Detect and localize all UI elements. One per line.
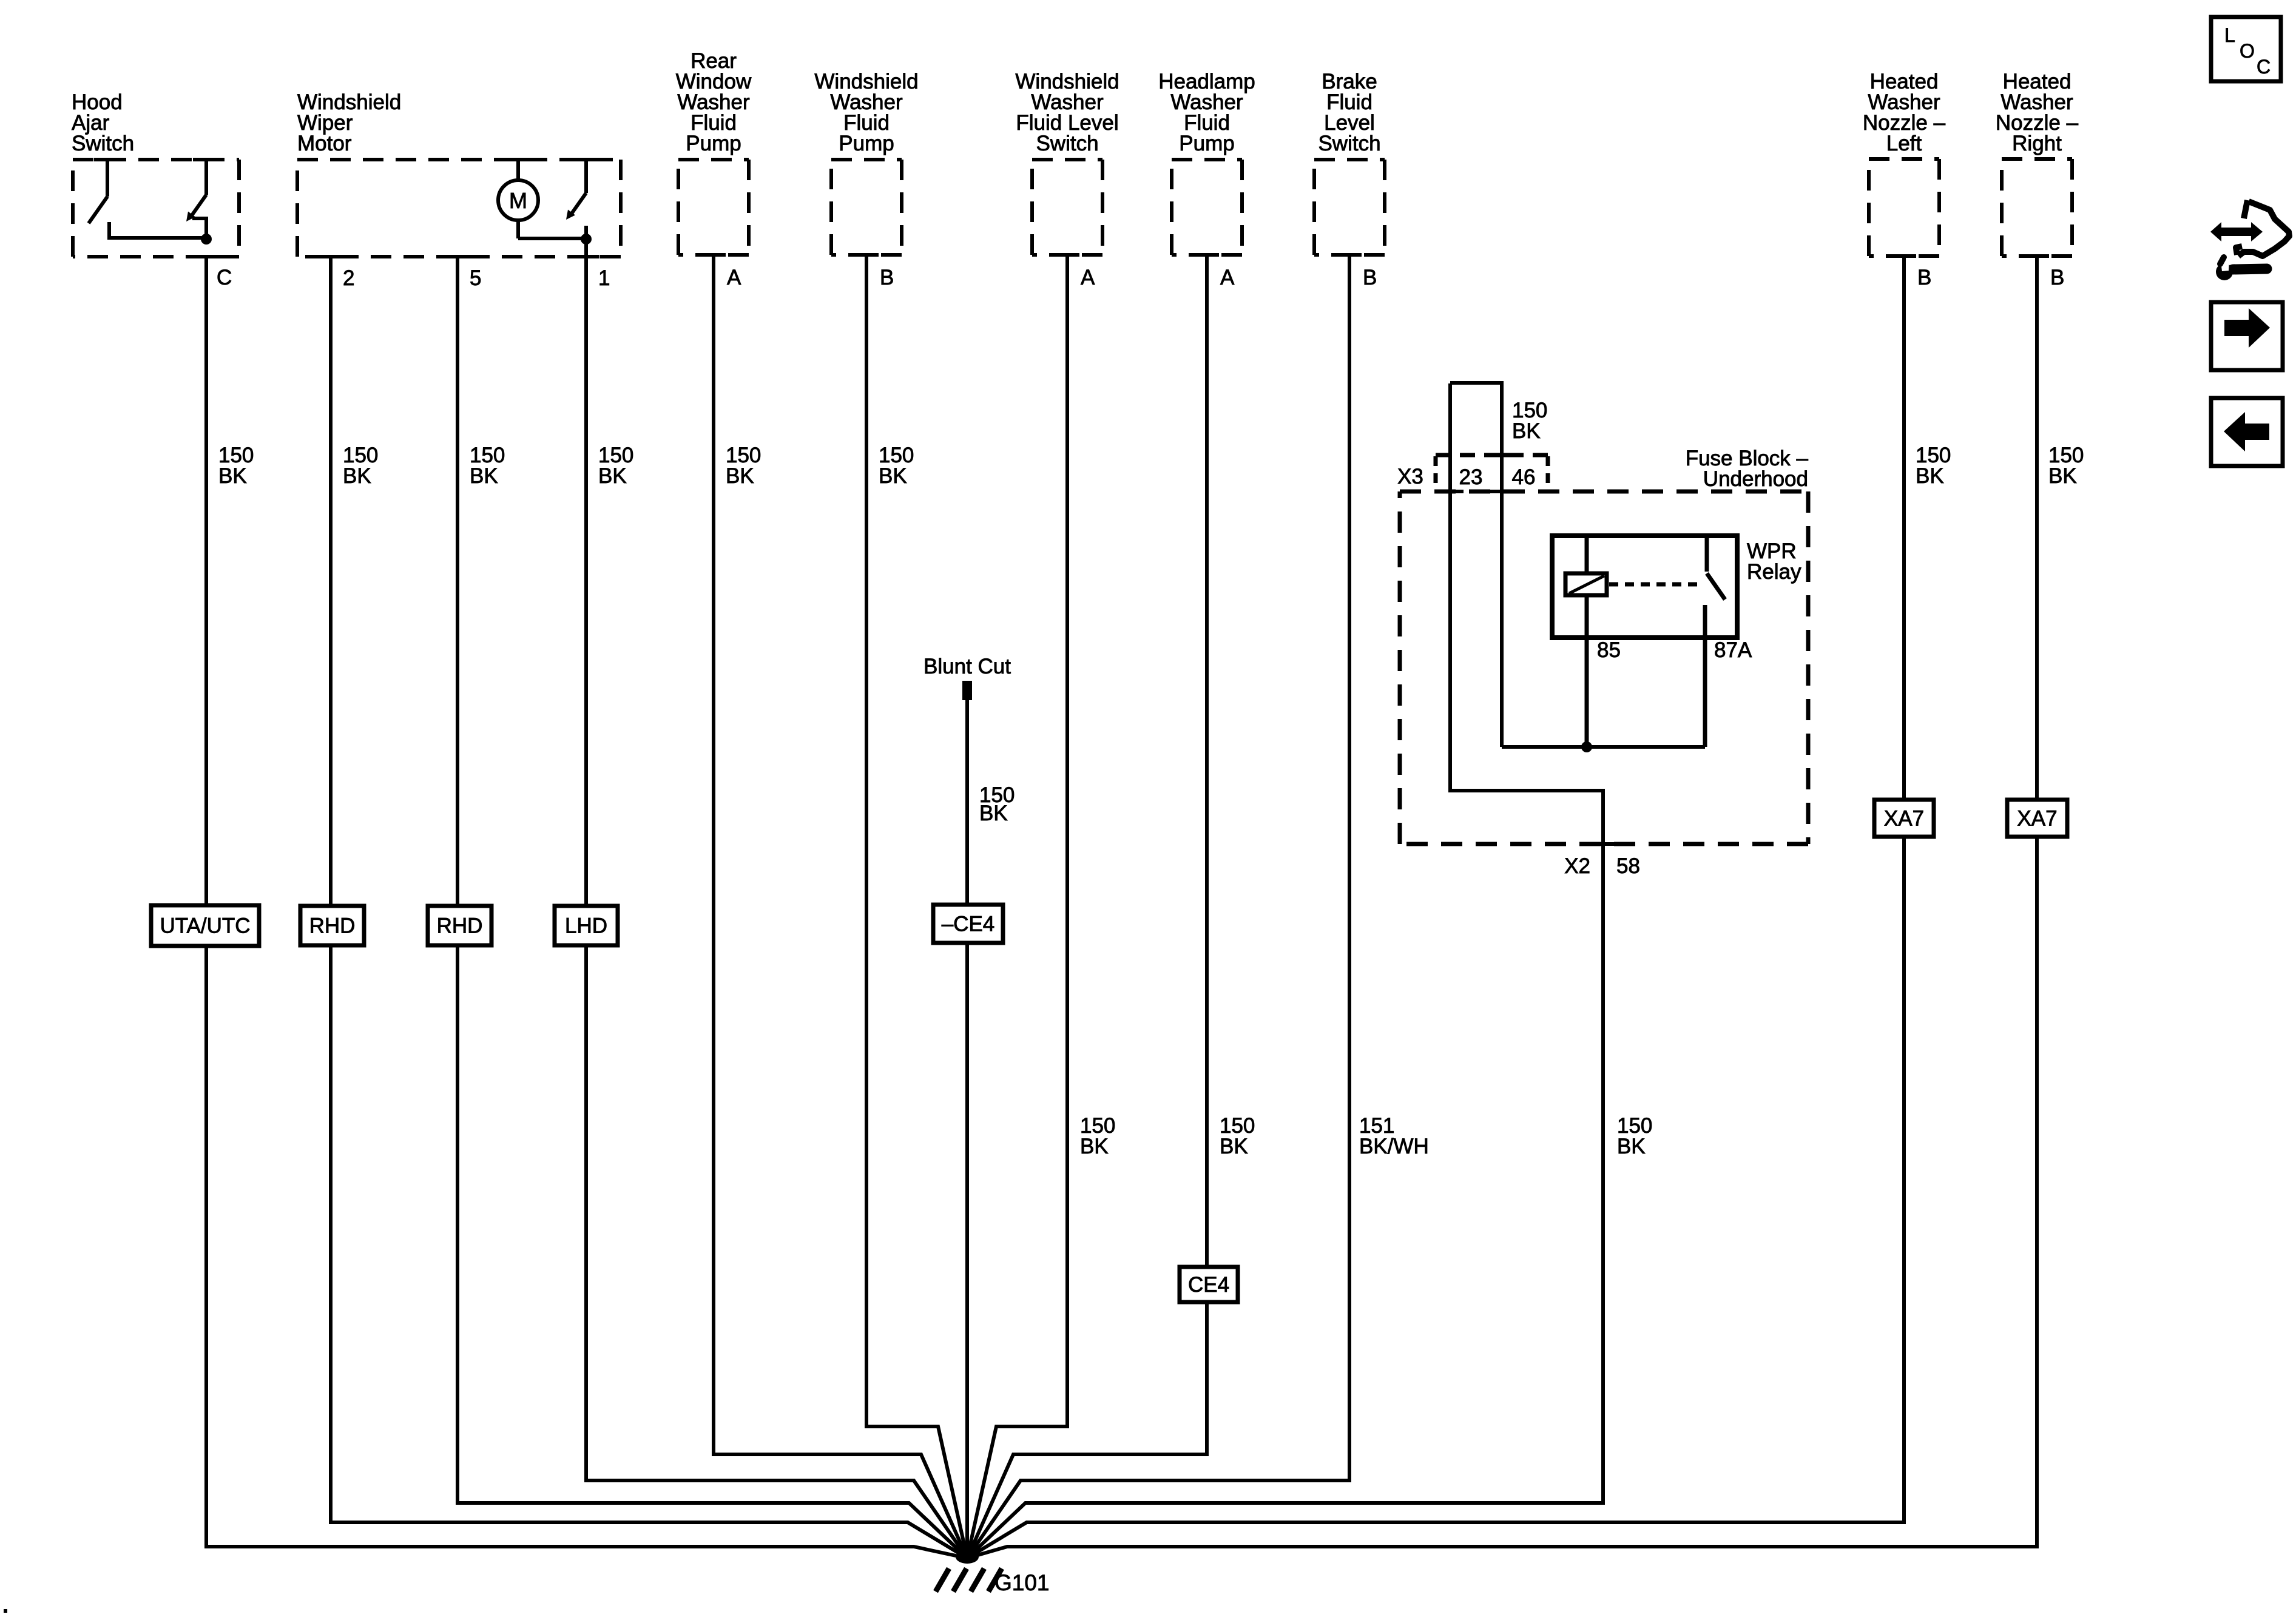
wire hood ajar switch pin C to ground G101: [206, 257, 967, 1558]
wire heated washer nozzle left pin B to ground G101: [967, 256, 1904, 1558]
svg-text:XA7: XA7: [1884, 807, 1924, 831]
svg-text:Switch: Switch: [1036, 132, 1098, 155]
wire wiper motor pin 2 to ground G101: [331, 257, 967, 1558]
svg-text:RHD: RHD: [437, 914, 483, 938]
pump P2 Windshield Washer Fluid Pump box: [831, 158, 902, 161]
svg-text:BK: BK: [979, 802, 1008, 825]
wire blunt cut to ground G101: [965, 698, 969, 1558]
svg-text:Left: Left: [1886, 132, 1922, 155]
svg-text:1: 1: [598, 266, 610, 290]
svg-text:BK: BK: [879, 464, 907, 488]
switch S1 contact 2 with arrowhead: [204, 160, 208, 195]
fuse block underhood dashed box: [1400, 490, 1808, 494]
connector code UTA/UTC: [151, 905, 259, 946]
heater HTR Heated Washer Nozzle Left box: [1869, 157, 1939, 161]
icon glove with double arrow and wrench (see service info): [2210, 222, 2263, 241]
relay K1 switch contact 87A: [1705, 536, 1709, 572]
svg-text:XA7: XA7: [2017, 807, 2057, 831]
blunt cut terminal: [962, 681, 972, 700]
svg-text:BK: BK: [2048, 464, 2077, 488]
junction node relay pin 85: [1581, 741, 1592, 752]
connector code XA7 left: [1874, 800, 1934, 837]
svg-text:46: 46: [1512, 465, 1536, 489]
svg-text:58: 58: [1616, 854, 1640, 878]
svg-text:BK: BK: [470, 464, 498, 488]
wire wiper motor pin 1 to ground G101: [586, 240, 967, 1558]
svg-text:Pump: Pump: [686, 132, 741, 155]
svg-text:85: 85: [1597, 638, 1621, 662]
svg-text:Pump: Pump: [839, 132, 894, 155]
ground G101 symbol: [956, 1550, 979, 1564]
page artifact dot bottom-left: [4, 1609, 7, 1613]
junction node wiper motor: [581, 234, 592, 245]
svg-text:BK: BK: [726, 464, 754, 488]
svg-text:Switch: Switch: [1318, 132, 1380, 155]
svg-text:BK: BK: [1617, 1135, 1646, 1158]
wire relay coil pin 85: [1585, 595, 1589, 747]
wire windshield washer pump pin B to ground G101: [866, 255, 967, 1558]
switch S1 contact 1: [106, 160, 109, 197]
relay K1 coil: [1585, 536, 1589, 573]
svg-text:UTA/UTC: UTA/UTC: [160, 914, 250, 938]
switch internal wiper motor park switch with arrowhead: [584, 160, 588, 193]
wire internal wiper motor: [518, 237, 586, 240]
svg-text:Motor: Motor: [297, 132, 352, 155]
connector code RHD (pin 5 wire): [428, 906, 491, 945]
svg-text:BK: BK: [1080, 1135, 1109, 1158]
svg-text:Underhood: Underhood: [1703, 467, 1808, 491]
relay K1 dashed actuation link: [1609, 582, 1699, 587]
svg-text:BK/WH: BK/WH: [1359, 1135, 1429, 1158]
icon arrow previous page: [2211, 398, 2283, 466]
wire internal hood ajar switch: [107, 236, 206, 240]
wire windshield washer fluid level switch pin A to ground G101: [967, 255, 1067, 1558]
svg-text:–CE4: –CE4: [942, 913, 995, 936]
switch S3 Brake Fluid Level Switch box: [1314, 158, 1385, 161]
pump P1 Rear Window Washer Fluid Pump box: [678, 158, 749, 161]
wire relay 85/87A to X2 58: [1502, 745, 1705, 749]
svg-text:M: M: [509, 188, 527, 213]
connector code -CE4: [933, 905, 1003, 943]
svg-text:BK: BK: [1220, 1135, 1248, 1158]
wire brake fluid level switch pin B to ground G101: [967, 255, 1349, 1558]
svg-text:LHD: LHD: [565, 914, 607, 938]
svg-text:5: 5: [470, 266, 481, 290]
switch S1 Hood Ajar Switch box: [73, 158, 239, 161]
wire rear window washer pump pin A to ground G101: [714, 255, 967, 1558]
svg-text:A: A: [1220, 266, 1235, 289]
switch S2 Windshield Washer Fluid Level Switch box: [1032, 158, 1102, 161]
connector code XA7 right: [2007, 800, 2067, 837]
relay K1 WPR Relay box: [1552, 536, 1737, 638]
junction node hood ajar switch: [201, 234, 212, 245]
svg-text:B: B: [880, 266, 894, 289]
svg-text:C: C: [217, 266, 232, 289]
icon LOC reference box: [2211, 17, 2281, 81]
icon arrow next page: [2211, 302, 2283, 370]
wire fuse block X3 pin 23 to pin 46 loop: [1450, 383, 1502, 747]
svg-text:BK: BK: [1916, 464, 1944, 488]
connector code CE4: [1180, 1267, 1238, 1302]
svg-text:BK: BK: [1512, 419, 1541, 443]
svg-text:A: A: [1081, 266, 1095, 289]
svg-text:B: B: [2050, 266, 2064, 289]
svg-text:L: L: [2224, 24, 2235, 46]
svg-text:BK: BK: [598, 464, 627, 488]
svg-text:B: B: [1363, 266, 1377, 289]
wire wiper motor pin 5 to ground G101: [458, 257, 967, 1558]
svg-text:G101: G101: [994, 1570, 1050, 1595]
wire headlamp washer pump pin A to ground G101: [967, 255, 1207, 1558]
wire heated washer nozzle right pin B to ground G101: [967, 256, 2037, 1558]
svg-text:Relay: Relay: [1747, 560, 1801, 584]
connector code LHD: [555, 906, 618, 945]
svg-text:X2: X2: [1564, 854, 1590, 878]
motor M1 Windshield Wiper Motor box: [297, 158, 621, 161]
heater HTR Heated Washer Nozzle Right box: [2002, 157, 2072, 161]
pump P3 Headlamp Washer Fluid Pump box: [1172, 158, 1242, 161]
svg-text:CE4: CE4: [1188, 1273, 1229, 1297]
svg-text:Pump: Pump: [1179, 132, 1234, 155]
connector X3 dashed outline: [1436, 453, 1548, 457]
svg-text:O: O: [2240, 40, 2255, 62]
svg-text:C: C: [2257, 56, 2271, 78]
svg-text:87A: 87A: [1714, 638, 1752, 662]
connector code RHD (pin 2 wire): [300, 906, 364, 945]
svg-text:BK: BK: [343, 464, 371, 488]
motor M1 symbol: [516, 160, 520, 181]
svg-text:BK: BK: [218, 464, 247, 488]
svg-text:Right: Right: [2012, 132, 2062, 155]
svg-text:X3: X3: [1397, 465, 1423, 488]
svg-text:Switch: Switch: [72, 132, 134, 155]
svg-text:A: A: [727, 266, 741, 289]
svg-text:Blunt Cut: Blunt Cut: [923, 655, 1011, 678]
svg-text:2: 2: [343, 266, 354, 290]
svg-text:B: B: [1917, 266, 1931, 289]
svg-text:23: 23: [1459, 465, 1483, 489]
svg-text:RHD: RHD: [309, 914, 356, 938]
wire fuse block X2 pin 58 to ground G101: [967, 383, 1603, 1558]
